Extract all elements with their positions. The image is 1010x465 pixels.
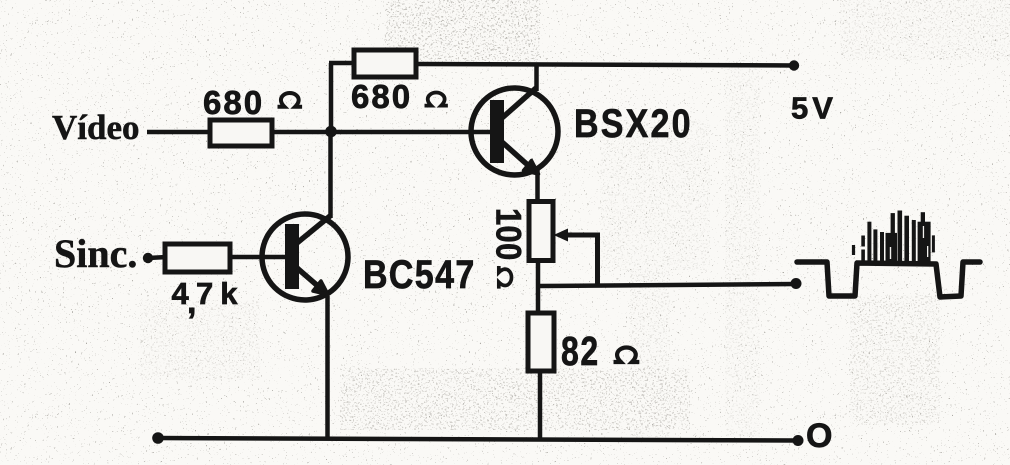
svg-text:BSX20: BSX20	[574, 100, 693, 145]
terminal dot rail right	[793, 435, 804, 446]
wire BC547 emitter to ground	[325, 296, 330, 440]
svg-text:680: 680	[203, 84, 264, 121]
transistor BC547	[262, 214, 348, 300]
wire top rail to 5V	[416, 64, 795, 66]
svg-text:7k: 7k	[196, 276, 244, 311]
terminal dot rail left	[152, 432, 164, 444]
svg-text:Sinc.: Sinc.	[54, 231, 137, 276]
spike texture slits	[878, 226, 929, 259]
wire wiper	[565, 235, 598, 287]
transistor BSX20	[471, 88, 558, 175]
resistor 680 (video series)	[210, 120, 272, 146]
wire BSX20 collector to rail	[534, 64, 539, 91]
wire video input	[147, 130, 212, 135]
ground rail	[158, 438, 799, 441]
potentiometer 100 ohm	[529, 202, 553, 261]
resistor 82	[528, 313, 554, 371]
terminal dot output	[791, 278, 802, 289]
ohm symbol rotated	[499, 266, 512, 289]
junction node A	[325, 126, 337, 138]
wire 4,7k to BC547 base	[230, 255, 287, 260]
waveform video noise spikes	[852, 211, 935, 263]
waveform output sketch	[797, 262, 980, 297]
ohm symbol	[614, 348, 640, 362]
svg-text:5V: 5V	[791, 91, 837, 126]
svg-text:Vídeo: Vídeo	[52, 108, 140, 147]
wire 82 to ground rail	[538, 373, 543, 440]
ohm symbol	[425, 93, 448, 106]
resistor 4,7k	[165, 244, 230, 272]
wire node to BSX20 base	[272, 130, 492, 135]
wire pot bottom	[536, 262, 541, 313]
svg-text:BC547: BC547	[363, 251, 476, 296]
svg-text:O: O	[806, 417, 832, 455]
svg-text:680: 680	[351, 78, 412, 115]
wire BSX20 emitter to pot	[535, 170, 540, 201]
terminal dot sinc input	[143, 253, 153, 263]
terminal dot 5V	[789, 60, 799, 70]
svg-text:82: 82	[561, 328, 600, 374]
ohm symbol	[278, 93, 303, 107]
wire BC547 collector to node	[328, 134, 333, 218]
wire top rail left segment	[329, 61, 356, 66]
wire node up to top rail	[329, 63, 334, 132]
pot wiper arrow	[554, 229, 569, 242]
resistor 680 (pull-up)	[354, 50, 416, 77]
svg-text:100: 100	[489, 208, 528, 261]
wire sinc input	[148, 257, 167, 258]
wire output line	[538, 284, 796, 286]
